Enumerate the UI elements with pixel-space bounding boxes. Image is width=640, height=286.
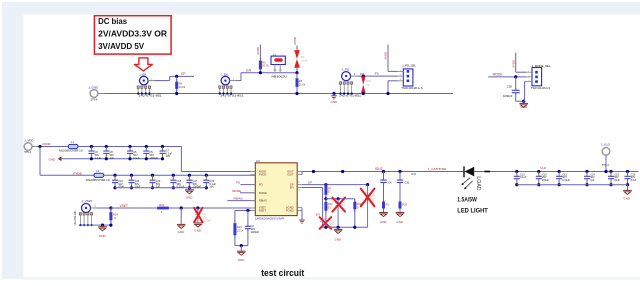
- svg-text:R1: R1: [386, 202, 390, 206]
- svg-text:TSW-103-08-G-S: TSW-103-08-G-S: [402, 86, 423, 90]
- svg-text:47uF: 47uF: [631, 179, 637, 182]
- svg-text:M1206KCH3R-10: M1206KCH3R-10: [59, 150, 83, 153]
- svg-text:AVDD: AVDD: [256, 47, 260, 55]
- svg-text:C4: C4: [388, 181, 392, 185]
- svg-text:LM3630A30GVNR: LM3630A30GVNR: [255, 217, 284, 221]
- svg-text:R21: R21: [411, 172, 416, 176]
- svg-text:R7: R7: [328, 186, 332, 190]
- svg-text:1000pF: 1000pF: [251, 231, 260, 234]
- svg-text:3V/AVDD 5V: 3V/AVDD 5V: [98, 42, 145, 51]
- svg-text:EN: EN: [246, 69, 251, 73]
- svg-text:GND: GND: [178, 230, 186, 234]
- svg-text:U3: U3: [256, 159, 260, 163]
- svg-text:J_VDD: J_VDD: [24, 138, 34, 142]
- svg-text:M1206KCH3R-10: M1206KCH3R-10: [86, 179, 110, 182]
- svg-text:MODE: MODE: [493, 73, 504, 77]
- svg-text:GND: GND: [194, 229, 202, 233]
- svg-text:HB3062U: HB3062U: [272, 74, 287, 78]
- svg-text:LOAD: LOAD: [475, 176, 481, 190]
- svg-text:J_VLD: J_VLD: [601, 143, 611, 147]
- svg-text:0.01uF: 0.01uF: [562, 179, 570, 182]
- svg-text:L1: L1: [71, 140, 75, 144]
- svg-text:IOUT: IOUT: [375, 167, 383, 171]
- svg-text:1000pF: 1000pF: [503, 94, 513, 98]
- svg-text:VLD: VLD: [540, 166, 547, 170]
- svg-text:AVDD: AVDD: [511, 60, 515, 68]
- svg-text:1000pF: 1000pF: [150, 157, 159, 160]
- svg-text:J_VSET: J_VSET: [82, 199, 93, 203]
- svg-text:R23: R23: [366, 79, 371, 83]
- svg-text:EN: EN: [316, 212, 320, 216]
- svg-text:20.0k: 20.0k: [179, 85, 186, 89]
- svg-text:GND: GND: [99, 234, 107, 238]
- svg-text:1uF: 1uF: [110, 157, 115, 160]
- svg-text:PVDD: PVDD: [73, 171, 82, 175]
- svg-text:142-0701-851: 142-0701-851: [339, 94, 362, 98]
- svg-text:20.0k: 20.0k: [299, 83, 306, 87]
- svg-text:GND: GND: [238, 258, 246, 262]
- svg-text:EP: EP: [308, 181, 312, 185]
- svg-text:142-0701-851: 142-0701-851: [139, 94, 163, 98]
- svg-text:GND: GND: [396, 220, 404, 224]
- svg-text:J_PD: J_PD: [342, 67, 350, 71]
- svg-text:1uF: 1uF: [590, 179, 595, 182]
- svg-text:142-0701-851: 142-0701-851: [220, 94, 244, 98]
- svg-text:AVDD: AVDD: [42, 142, 51, 146]
- svg-text:1000pF: 1000pF: [202, 220, 211, 223]
- svg-text:GND: GND: [331, 100, 339, 104]
- svg-text:J1: J1: [273, 52, 276, 56]
- svg-text:R20: R20: [159, 203, 164, 207]
- svg-text:J_GND: J_GND: [89, 86, 100, 90]
- svg-text:142-0701-851: 142-0701-851: [74, 210, 77, 226]
- svg-text:J_PD_SEL: J_PD_SEL: [402, 64, 417, 68]
- svg-text:TSW-103-08-G-S: TSW-103-08-G-S: [531, 86, 550, 90]
- svg-text:2.2uF: 2.2uF: [95, 157, 102, 160]
- svg-text:L2: L2: [96, 169, 100, 173]
- svg-text:J_EP: J_EP: [139, 73, 146, 77]
- svg-text:test circuit: test circuit: [261, 268, 304, 278]
- svg-text:R5: R5: [299, 79, 303, 83]
- svg-text:C30: C30: [507, 85, 513, 89]
- svg-text:0.1uF: 0.1uF: [520, 176, 527, 179]
- svg-text:20.0k: 20.0k: [237, 228, 244, 232]
- svg-text:10V: 10V: [210, 186, 215, 189]
- svg-text:RSET: RSET: [259, 209, 267, 213]
- svg-text:MODE: MODE: [232, 189, 241, 193]
- svg-text:20.0k: 20.0k: [262, 64, 269, 68]
- svg-text:AVDD: AVDD: [384, 52, 388, 60]
- svg-text:RBIAS: RBIAS: [259, 199, 267, 203]
- svg-text:RBIAS: RBIAS: [234, 197, 243, 201]
- svg-text:10V: 10V: [166, 155, 171, 158]
- svg-text:1.5A/5W: 1.5A/5W: [457, 197, 477, 204]
- svg-text:J_MODE_SEL: J_MODE_SEL: [532, 64, 551, 68]
- svg-text:EN: EN: [290, 186, 294, 190]
- svg-text:575-4: 575-4: [91, 98, 98, 102]
- svg-text:2V/AVDD3.3V OR: 2V/AVDD3.3V OR: [98, 30, 167, 39]
- svg-text:575-4: 575-4: [24, 150, 31, 154]
- svg-text:R26: R26: [402, 202, 407, 206]
- svg-text:R19: R19: [237, 225, 242, 229]
- svg-text:GND: GND: [624, 197, 632, 201]
- svg-text:0.1uF: 0.1uF: [133, 157, 140, 160]
- svg-text:J_EN: J_EN: [221, 73, 228, 77]
- svg-text:R10: R10: [328, 202, 333, 206]
- svg-text:GND: GND: [335, 237, 343, 241]
- svg-text:L_CATHODE: L_CATHODE: [428, 167, 446, 171]
- svg-text:PD: PD: [259, 183, 263, 187]
- svg-text:IOUT: IOUT: [287, 173, 294, 177]
- svg-text:DC bias: DC bias: [98, 17, 127, 26]
- svg-text:GND: GND: [186, 196, 194, 200]
- svg-text:MODE: MODE: [259, 191, 267, 195]
- svg-text:C32: C32: [405, 181, 410, 185]
- svg-text:R3: R3: [262, 60, 266, 64]
- svg-text:AVDD: AVDD: [293, 37, 297, 45]
- svg-text:GND: GND: [520, 105, 528, 109]
- svg-text:PVDD: PVDD: [259, 173, 267, 177]
- svg-text:R2: R2: [301, 55, 305, 59]
- svg-text:GND: GND: [49, 157, 57, 161]
- svg-text:LED LIGHT: LED LIGHT: [457, 208, 488, 215]
- svg-text:20.0k: 20.0k: [301, 59, 308, 63]
- svg-text:PGND: PGND: [286, 209, 294, 213]
- svg-text:220uF: 220uF: [542, 179, 550, 182]
- svg-text:R24: R24: [113, 213, 118, 217]
- svg-text:GND: GND: [380, 220, 388, 224]
- svg-text:10uF: 10uF: [614, 179, 620, 182]
